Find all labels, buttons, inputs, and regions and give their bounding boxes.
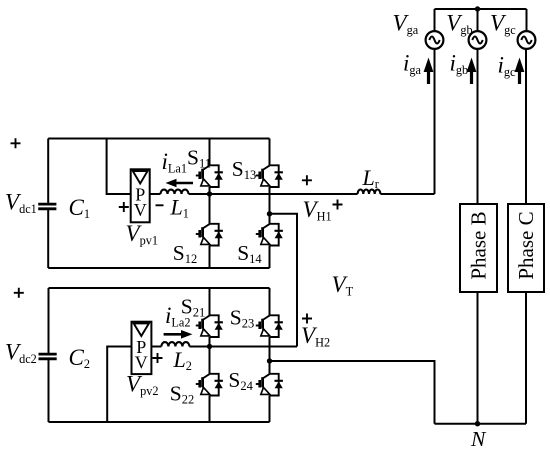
wire bottom N bus [435,423,527,425]
svg-text:V: V [135,353,148,373]
wire cell2 PV feed [107,347,131,423]
inductor Lr [358,189,381,194]
wire cell2 top rail [49,287,270,289]
source Vga [426,31,444,49]
label plus cell1 top left [11,138,21,148]
source Vgb [469,31,487,49]
switch S23 [256,315,283,337]
wire grid top bus [435,8,527,10]
node junction N [475,421,480,426]
arrow current iga [424,58,434,85]
wire PV1 to coil [150,193,161,195]
wire cell2 left leg bottom [209,396,211,423]
wire phase B vertical lower [477,292,479,424]
svg-text:Phase B: Phase B [467,211,491,279]
wire cell1 left leg middle [209,187,211,224]
wire cell1 left edge upper [47,139,49,205]
wire cell1 left leg top [209,139,211,166]
wire cell1 right leg top [269,139,271,166]
label plus PV2 [153,353,163,363]
arrow current igc [515,58,525,85]
inductor L1 [161,190,189,194]
arrow iLa1 [166,179,194,188]
switch S13 [256,165,283,187]
wire cell1 bottom rail [48,267,269,269]
wire cell1 left edge lower [47,209,49,268]
label minus L1 [156,204,164,206]
label plus PV1 [119,202,129,212]
wire cell1 PV feed [107,139,131,195]
switch S14 [256,224,283,246]
PV panel 1 [131,169,150,222]
box Phase B [460,204,497,292]
svg-text:N: N [470,427,487,451]
capacitor C1 [38,204,56,209]
switch S21 [196,315,223,337]
wire cell2 mid line [189,346,297,348]
wire phase C vertical lower [525,292,527,424]
node cell2 left mid [207,344,212,349]
wire cell2 left edge upper [48,288,50,354]
arrow iLa2 [164,330,193,339]
node junction top bus [475,6,480,11]
wire cell2 right leg middle [269,337,271,374]
switch S12 [196,224,223,246]
wire stub to Vgb source [477,9,479,32]
wire phase C vertical upper [525,49,527,204]
node cell1 left mid [207,191,212,196]
node cell1 right mid [267,211,272,216]
PV panel 2 [132,322,152,374]
arrow current igb [467,58,477,85]
wire PV2 to coil [151,346,161,348]
wire phase A vertical [434,49,436,194]
wire VH2 out to N [270,361,435,424]
box Phase C [508,204,544,292]
switch S22 [196,374,223,396]
label plus cell2 top left [14,288,24,298]
wire cell2 left leg middle [209,337,211,374]
wire stub to Vgc source [526,9,528,32]
wire cell1 out to VT link [270,214,298,347]
wire cell1 right leg bottom [269,246,271,269]
wire cell2 right leg top [269,288,271,315]
source Vgc [518,31,536,49]
svg-text:V: V [134,200,147,220]
wire cell2 left leg top [209,288,211,315]
wire cell1 mid line [189,193,435,195]
label plus VH2 [302,314,312,324]
wire cell1 top rail [48,138,269,140]
wire stub to Vga source [434,9,436,32]
wire cell2 right leg bottom [269,396,271,423]
switch S24 [256,374,283,396]
wire cell1 left leg bottom [209,246,211,269]
node cell2 right mid [267,358,272,363]
wire cell2 bottom rail [49,421,270,423]
label plus VH1 left [302,175,312,185]
label plus VH1 right [333,200,343,210]
wire cell2 left edge lower [48,359,50,422]
wire cell1 right leg middle [269,187,271,224]
inductor L2 [161,342,189,346]
capacitor C2 [39,354,57,359]
wire phase B vertical upper [477,49,479,204]
switch S11 [196,165,223,187]
svg-text:Phase C: Phase C [514,211,538,279]
